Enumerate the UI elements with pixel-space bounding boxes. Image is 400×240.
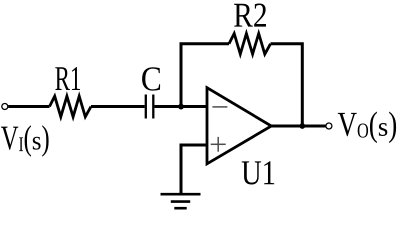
wire [91, 105, 145, 108]
op-amp minus sign [212, 106, 227, 108]
wire (output) [271, 125, 326, 128]
resistor R1 [50, 96, 92, 117]
label R2 [234, 4, 266, 27]
resistor R2 [229, 34, 271, 55]
wire (feedback left: up and over) [181, 44, 229, 107]
capacitor C [146, 95, 154, 119]
label R1 [55, 67, 80, 90]
node A (inverting input junction) [178, 104, 184, 110]
op-amp U1 [207, 88, 271, 164]
input terminal [2, 104, 8, 110]
wire (non-inverting input to ground) [181, 145, 207, 194]
label VO(s) [338, 112, 396, 144]
node B (output junction) [299, 123, 305, 129]
ground [161, 194, 201, 208]
output terminal [326, 123, 332, 129]
wire (feedback right: over and down) [271, 44, 303, 126]
label VI(s) [1, 125, 49, 157]
wire [155, 105, 208, 108]
wire [8, 105, 49, 108]
label C [142, 67, 160, 90]
label U1 [242, 161, 275, 184]
op-amp plus sign [211, 137, 226, 152]
